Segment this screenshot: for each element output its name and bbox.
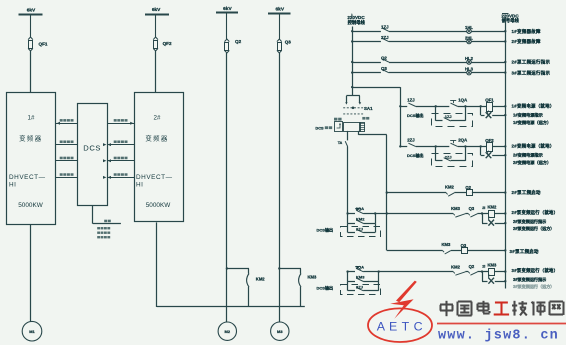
svg-text:2ZJ: 2ZJ [356,226,363,231]
svg-text:DCS输出: DCS输出 [407,152,423,158]
svg-text:Q2: Q2 [235,39,242,44]
svg-text:2#变频电源（远方）: 2#变频电源（远方） [513,159,551,166]
svg-text:Q3: Q3 [461,243,467,248]
svg-text:2#泵变频运行指示: 2#泵变频运行指示 [513,218,546,224]
svg-text:KM3: KM3 [308,275,318,280]
svg-text:DHVECT—: DHVECT— [9,174,46,181]
svg-text:5000KW: 5000KW [18,202,43,209]
svg-text:Q2: Q2 [469,264,475,269]
svg-text:2HL: 2HL [465,35,473,40]
svg-text:3#泵工频启动: 3#泵工频启动 [510,248,540,255]
svg-text:3#泵变频运行指示: 3#泵变频运行指示 [513,276,546,282]
svg-text:6kV: 6kV [276,6,285,12]
svg-text:控制母线: 控制母线 [348,19,366,26]
svg-text:M3: M3 [277,329,283,334]
svg-text:DHVECT—: DHVECT— [136,174,173,181]
svg-text:HI: HI [9,182,17,189]
svg-text:www. jsw8. cn: www. jsw8. cn [438,328,559,343]
svg-text:Q3: Q3 [469,206,475,211]
svg-text:QF1: QF1 [485,98,494,103]
svg-text:1#变频电源（远方）: 1#变频电源（远方） [513,119,551,126]
svg-text:HL3: HL3 [465,67,474,72]
svg-text:3#泵变频运行（远方）: 3#泵变频运行（远方） [513,283,554,289]
svg-text:DCS输出: DCS输出 [317,226,333,232]
svg-text:KM3: KM3 [356,275,365,280]
svg-text:KM3: KM3 [442,242,452,247]
svg-text:1ZJ: 1ZJ [407,97,415,102]
svg-text:2#泵工频启动: 2#泵工频启动 [512,189,542,196]
svg-text:2#变频器故障: 2#变频器故障 [512,38,542,45]
svg-text:2ZJ: 2ZJ [407,138,415,143]
svg-text:1#: 1# [28,115,35,122]
svg-text:2QA: 2QA [458,138,468,143]
svg-text:KM3: KM3 [451,206,461,211]
svg-text:DCS: DCS [83,144,101,153]
svg-text:3#泵变频运行（就地）: 3#泵变频运行（就地） [512,267,559,274]
svg-text:M2: M2 [225,329,231,334]
svg-text:HI: HI [136,182,144,189]
svg-text:M1: M1 [29,329,35,334]
svg-text:2#泵变频运行（就地）: 2#泵变频运行（就地） [512,209,559,216]
svg-text:QF1: QF1 [39,42,48,47]
svg-text:KM2: KM2 [256,277,266,282]
svg-text:2#变频电源指示: 2#变频电源指示 [513,152,544,159]
svg-text:1ZJ: 1ZJ [445,114,452,119]
svg-text:1HL: 1HL [465,25,473,30]
svg-text:6kV: 6kV [27,7,36,13]
svg-text:TA: TA [338,141,343,145]
svg-text:DCS输出: DCS输出 [317,284,333,290]
svg-text:DCS输出: DCS输出 [407,112,423,118]
svg-text:QF2: QF2 [163,41,172,46]
svg-text:DCS: DCS [315,125,324,130]
svg-text:3QA: 3QA [356,264,364,269]
svg-text:2l: 2l [482,206,485,210]
svg-text:Q3: Q3 [381,66,387,71]
svg-text:1#变频器故障: 1#变频器故障 [512,28,542,35]
svg-text:KM2: KM2 [488,205,498,210]
svg-text:2#: 2# [154,115,161,122]
svg-text:2ZJ: 2ZJ [381,35,389,40]
svg-text:Q2: Q2 [465,185,471,190]
svg-text:5000KW: 5000KW [146,202,171,209]
svg-text:KM2: KM2 [356,217,365,222]
svg-text:2#泵工频运行指示: 2#泵工频运行指示 [512,59,551,66]
svg-text:Q2: Q2 [381,55,387,60]
svg-text:HL2: HL2 [465,56,474,61]
svg-text:KM2: KM2 [445,184,455,189]
svg-text:2#泵变频运行（远方）: 2#泵变频运行（远方） [513,225,554,231]
svg-text:SA1: SA1 [364,106,373,111]
svg-text:A E T C: A E T C [377,319,423,333]
svg-text:1QA: 1QA [458,97,468,102]
svg-text:Q3: Q3 [285,40,292,45]
svg-text:2QA: 2QA [356,206,364,211]
svg-text:1#变频电源指示: 1#变频电源指示 [513,112,544,119]
svg-text:KM3: KM3 [488,263,498,268]
svg-text:2#变频电源（就地）: 2#变频电源（就地） [512,143,555,150]
svg-text:变频器: 变频器 [19,134,42,143]
svg-text:6kV: 6kV [152,7,161,13]
svg-text:变频器: 变频器 [145,134,168,143]
svg-text:3#泵工频运行指示: 3#泵工频运行指示 [512,69,551,76]
svg-text:2l: 2l [482,264,485,268]
svg-text:信号母线: 信号母线 [502,17,520,24]
svg-text:3ZJ: 3ZJ [356,284,363,289]
svg-text:2ZJ: 2ZJ [445,154,452,159]
svg-text:6kV: 6kV [223,6,232,12]
svg-text:1#变频电源（就地）: 1#变频电源（就地） [512,103,555,110]
svg-text:KM2: KM2 [451,264,461,269]
svg-text:1ZJ: 1ZJ [381,25,389,30]
